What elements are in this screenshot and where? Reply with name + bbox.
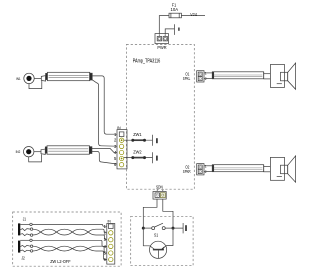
cable IN2 — [45, 146, 92, 154]
twisted pair J2 — [33, 246, 107, 259]
svg-text:J1: J1 — [23, 216, 27, 221]
svg-text:V24: V24 — [190, 12, 197, 18]
svg-text:IN2: IN2 — [16, 149, 21, 154]
svg-text:ZW L2-OFF: ZW L2-OFF — [50, 259, 71, 264]
transistor Q1 — [150, 241, 167, 258]
connector O2 — [197, 164, 207, 175]
wire PWR pin2 to battery — [165, 29, 174, 34]
wire IN1 shield to pin3 — [92, 80, 117, 146]
switch S1 — [152, 223, 166, 229]
svg-text:2: 2 — [205, 170, 207, 174]
wire O1 pin2 — [204, 78, 212, 80]
wire O2 pin2 — [204, 170, 212, 172]
connector IN (module) — [114, 130, 127, 169]
jack IN2 — [24, 147, 46, 162]
speaker LS1 (top) — [270, 63, 295, 89]
node right junction — [172, 227, 175, 230]
svg-text:10A: 10A — [171, 7, 179, 12]
config box ZW L2-OFF (dashed) — [13, 212, 121, 266]
plug J1 — [18, 223, 33, 236]
speaker LS2 (bottom) — [270, 156, 295, 182]
wire to transistor collector — [143, 228, 150, 246]
connector IN (config box) — [104, 224, 115, 265]
module box PAmp_TPA3116 (dashed) — [127, 44, 195, 189]
label F1 10A — [171, 2, 179, 12]
connector PWR — [155, 33, 169, 43]
wire O1 pin1 — [204, 72, 212, 74]
svg-text:PAmp_TPA3116: PAmp_TPA3116 — [133, 59, 161, 65]
svg-text:1: 1 — [205, 72, 207, 76]
wire switch bus — [143, 227, 151, 229]
ground for ZW2 — [153, 152, 157, 163]
wire SDN pin2 down-right — [163, 199, 173, 228]
jumper ZW2 — [124, 156, 153, 159]
ground in shutdown box — [183, 223, 186, 233]
cable O1 to speaker — [212, 72, 270, 79]
wire transistor emitter to right rail — [166, 228, 173, 245]
wire IN2 signal to pin4 — [92, 148, 117, 152]
wire J1 tip to pin1 — [32, 224, 107, 226]
ground for ZW1 — [153, 135, 157, 146]
wire IN2 shield to pin6 — [92, 151, 117, 164]
svg-text:J2: J2 — [21, 256, 25, 261]
node left junction — [142, 227, 145, 230]
svg-text:IN: IN — [117, 126, 121, 130]
wire J2 tip to pin4 — [32, 240, 107, 246]
svg-text:SPKL: SPKL — [183, 76, 191, 81]
plug J2 — [18, 239, 33, 253]
svg-text:SPKR: SPKR — [183, 169, 191, 174]
connector SDN — [153, 188, 166, 199]
svg-text:IN: IN — [107, 219, 111, 223]
svg-text:1: 1 — [205, 165, 207, 169]
shutdown box (dashed) — [131, 216, 193, 265]
cable O2 to speaker — [212, 165, 270, 172]
svg-text:ZW2: ZW2 — [133, 150, 142, 155]
cable IN1 — [46, 72, 93, 80]
svg-text:IN1: IN1 — [16, 76, 21, 81]
svg-text:ZW1: ZW1 — [133, 132, 142, 137]
svg-text:S1: S1 — [154, 232, 159, 237]
connector O1 — [197, 71, 207, 82]
fuse F1 — [169, 13, 181, 18]
wire IN1 signal to pin1 — [92, 76, 117, 134]
wire fuse left to PWR pin1 — [159, 16, 169, 34]
twisted pair J1 — [33, 229, 107, 240]
jumper ZW1 — [124, 139, 153, 142]
wire O2 pin1 — [204, 165, 212, 167]
label O2 SPKR — [183, 164, 191, 174]
svg-text:PWR: PWR — [157, 45, 167, 51]
wire fuse right to V24 — [181, 15, 205, 17]
ground (battery-style) near PWR — [175, 24, 179, 35]
svg-text:2: 2 — [205, 77, 207, 81]
jack IN1 — [24, 73, 46, 88]
wire SDN pin1 down-left — [143, 199, 157, 228]
label O1 SPKL — [183, 71, 191, 81]
